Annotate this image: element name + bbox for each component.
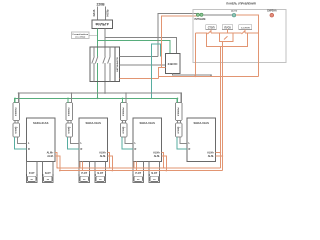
wire gray 24V output bottom bbox=[173, 74, 212, 77]
svg-text:КЛЕММ: КЛЕММ bbox=[123, 126, 125, 133]
wire orange ALM- tap 2 bbox=[108, 156, 114, 171]
wire orange 24V output left bbox=[159, 68, 166, 79]
wire green bus drop 2 bbox=[67, 98, 69, 104]
junction breaker to green bus bbox=[97, 97, 99, 99]
wire green branch to 24V box bbox=[98, 41, 171, 54]
svg-text:SGDA-01AS: SGDA-01AS bbox=[140, 121, 156, 125]
wire orange from breaker bottom right bbox=[120, 77, 159, 79]
limit switch P-OT drive 1 bbox=[26, 161, 38, 182]
breaker pole 1 bbox=[92, 47, 95, 81]
power supply 24V DC bbox=[165, 54, 180, 74]
wire gray pair to power connector bbox=[158, 13, 197, 56]
wire phase input bbox=[97, 7, 99, 21]
wire orange ALM+ tap 2 bbox=[108, 153, 111, 169]
wire gray connector to mains connector bbox=[203, 14, 232, 16]
svg-text:КЛЕММЫ: КЛЕММЫ bbox=[68, 107, 70, 116]
wire L green from filter through breaker to green bus bbox=[97, 29, 99, 57]
callout shielded cable bbox=[72, 32, 98, 39]
terminal strip X1A bbox=[13, 103, 20, 121]
wire orange from mains connector bbox=[236, 15, 259, 76]
servo drive U2 SGDA-01AS bbox=[79, 118, 108, 161]
terminal strip X3B bbox=[121, 123, 128, 137]
wire orange ALM+ tap 1 bbox=[55, 153, 58, 169]
terminal strip X2A bbox=[66, 103, 73, 121]
svg-text:КЛЕММЫ: КЛЕММЫ bbox=[178, 107, 180, 116]
wire teal strip to R pin 3 bbox=[122, 137, 133, 149]
wire orange ALM+ tap 3 bbox=[162, 153, 165, 169]
svg-text:ALM-: ALM- bbox=[100, 155, 106, 158]
breaker pole 2 contact bbox=[95, 57, 98, 64]
wire teal strip to R pin 1 bbox=[15, 137, 27, 149]
connector power (2 green circles) bbox=[194, 13, 206, 21]
wire orange ALM- tap 4 bbox=[216, 155, 224, 157]
svg-text:ПИТАНИЕ: ПИТАНИЕ bbox=[194, 18, 206, 21]
svg-text:N-OT: N-OT bbox=[45, 172, 51, 175]
green bus bbox=[15, 98, 178, 103]
breaker pole 4 bbox=[108, 47, 111, 81]
svg-text:КЛЕММЫ: КЛЕММЫ bbox=[123, 107, 125, 116]
limit switch P-OT drive 3 bbox=[132, 161, 144, 182]
wire orange alarm feed 3 bbox=[134, 161, 136, 170]
servo drive U3 SGDA-01AS bbox=[133, 118, 162, 161]
wire strip link 2 bbox=[68, 121, 71, 124]
wire orange button chain bbox=[195, 32, 258, 34]
svg-text:N-OT: N-OT bbox=[97, 172, 103, 175]
limit switch N-OT drive 1 bbox=[42, 161, 54, 182]
wire orange alarm rail 1 bbox=[57, 167, 220, 169]
wire gray from breaker to 24V box left (lower) bbox=[120, 64, 166, 66]
svg-text:SGDA-01AS: SGDA-01AS bbox=[33, 121, 49, 125]
svg-text:СИРЕНА: СИРЕНА bbox=[267, 10, 277, 13]
wire orange alarm rail 2 bbox=[60, 170, 223, 172]
wire gray bus drop 4 bbox=[180, 92, 182, 103]
wire strip link 3 bbox=[123, 121, 126, 124]
wire teal strip to R pin 4 bbox=[177, 137, 187, 149]
wire green bus drop 4 bbox=[177, 98, 179, 104]
svg-text:SGDA-01AS: SGDA-01AS bbox=[194, 121, 210, 125]
contact NC stop bbox=[208, 31, 212, 34]
wire teal riser to green bus bbox=[151, 44, 160, 98]
control panel border bbox=[193, 10, 286, 63]
wire teal strip to R pin 2 bbox=[68, 137, 80, 149]
svg-text:СТОП: СТОП bbox=[208, 26, 215, 29]
terminal strip X2B bbox=[66, 123, 73, 137]
limit switch N-OT drive 3 bbox=[148, 161, 160, 182]
stub stop button bbox=[210, 30, 212, 34]
button START bbox=[222, 25, 232, 30]
wire green bus drop 1 bbox=[14, 98, 16, 104]
contact NC e-stop bbox=[242, 31, 246, 34]
breaker QF1 bbox=[90, 47, 120, 81]
wire orange panel left drop bbox=[194, 33, 196, 77]
svg-text:P-OT: P-OT bbox=[135, 172, 141, 175]
svg-text:ALM-: ALM- bbox=[154, 155, 160, 158]
svg-text:ФИЛЬТР: ФИЛЬТР bbox=[96, 23, 110, 27]
wire gray branch to 24V box bbox=[105, 38, 176, 54]
wire orange alarm drop 2 bbox=[221, 41, 223, 170]
svg-text:R: R bbox=[189, 148, 191, 151]
servo drive U1 SGDA-01AS bbox=[27, 118, 56, 161]
svg-text:P-OT: P-OT bbox=[29, 172, 35, 175]
breaker pole 3 contact bbox=[103, 57, 106, 64]
lamp siren bbox=[267, 10, 277, 17]
svg-text:КЛЕММ: КЛЕММ bbox=[68, 126, 70, 133]
svg-text:ALM-: ALM- bbox=[208, 155, 214, 158]
wire strip link 1 bbox=[15, 121, 18, 124]
terminal strip X4A bbox=[176, 103, 183, 121]
wire gray bus drop 2 bbox=[71, 92, 73, 103]
terminal strip X4B bbox=[176, 123, 183, 137]
wire orange ALM+ tap 4 bbox=[216, 152, 222, 154]
svg-text:R: R bbox=[28, 148, 30, 151]
svg-text:КЛЕММЫ: КЛЕММЫ bbox=[15, 107, 17, 116]
svg-text:КЛЕММ: КЛЕММ bbox=[15, 126, 17, 133]
svg-text:SGDA-01AS: SGDA-01AS bbox=[86, 121, 102, 125]
relay contact box under start bbox=[220, 33, 233, 41]
svg-text:НОЛЬ: НОЛЬ bbox=[107, 9, 110, 16]
wire green strip to L pin 4 bbox=[180, 137, 187, 143]
svg-text:R: R bbox=[135, 148, 137, 151]
wire neutral input bbox=[105, 7, 107, 21]
wire green strip to L pin 3 bbox=[125, 137, 133, 143]
svg-text:R: R bbox=[81, 148, 83, 151]
wire orange seal-in branch bbox=[206, 33, 247, 46]
svg-text:сеч. 2,5мм: сеч. 2,5мм bbox=[75, 36, 86, 38]
servo drive U4 SGDA-01AS bbox=[187, 118, 216, 161]
svg-text:ФАЗА: ФАЗА bbox=[93, 9, 96, 16]
terminal strip X3A bbox=[121, 103, 128, 121]
wire orange ALM- tap 1 bbox=[55, 156, 61, 171]
wire orange alarm feed 2 bbox=[80, 161, 82, 170]
stub e-stop button bbox=[244, 30, 246, 34]
svg-text:ПАНЕЛЬ УПРАВЛЕНИЯ: ПАНЕЛЬ УПРАВЛЕНИЯ bbox=[226, 2, 256, 6]
svg-text:ALM-: ALM- bbox=[47, 155, 53, 158]
wire orange ALM- tap 3 bbox=[162, 156, 168, 171]
terminal strip X1B bbox=[13, 123, 20, 137]
wire gray bus drop 1 bbox=[18, 92, 20, 103]
wire orange riser to power connector bbox=[162, 16, 197, 68]
svg-text:220В: 220В bbox=[96, 3, 105, 7]
wire green strip to L pin 1 bbox=[18, 137, 27, 143]
wire orange alarm drop 1 bbox=[219, 47, 221, 168]
svg-text:СЕТЬ: СЕТЬ bbox=[231, 11, 238, 13]
wire strip link 4 bbox=[178, 121, 181, 124]
wire orange main horizontal bbox=[159, 75, 259, 77]
stub start button bbox=[227, 30, 229, 34]
svg-text:N-OT: N-OT bbox=[151, 172, 157, 175]
filter FL1 bbox=[92, 20, 113, 29]
svg-text:КАТУШКА ПВ: КАТУШКА ПВ bbox=[116, 57, 119, 72]
wire green strip to L pin 2 bbox=[71, 137, 80, 143]
connector mains bbox=[231, 11, 238, 17]
wire gray bus drop 3 bbox=[125, 92, 127, 103]
svg-text:С-СТОП: С-СТОП bbox=[241, 27, 250, 29]
junction breaker to gray bus bbox=[104, 92, 106, 94]
limit switch P-OT drive 2 bbox=[78, 161, 90, 182]
svg-text:ПУСК: ПУСК bbox=[224, 26, 231, 29]
svg-text:КЛЕММ: КЛЕММ bbox=[178, 126, 180, 133]
gray bus bbox=[19, 93, 182, 103]
svg-text:P-OT: P-OT bbox=[81, 172, 87, 175]
wire green bus drop 3 bbox=[122, 98, 124, 104]
button STOP bbox=[206, 25, 216, 30]
button E-STOP bbox=[239, 25, 252, 30]
wire N gray from filter through breaker to gray bus bbox=[104, 29, 106, 57]
svg-text:24В DC: 24В DC bbox=[168, 62, 178, 66]
limit switch N-OT drive 2 bbox=[94, 161, 106, 182]
wire gray from breaker to 24V feed (upper) bbox=[120, 56, 158, 58]
